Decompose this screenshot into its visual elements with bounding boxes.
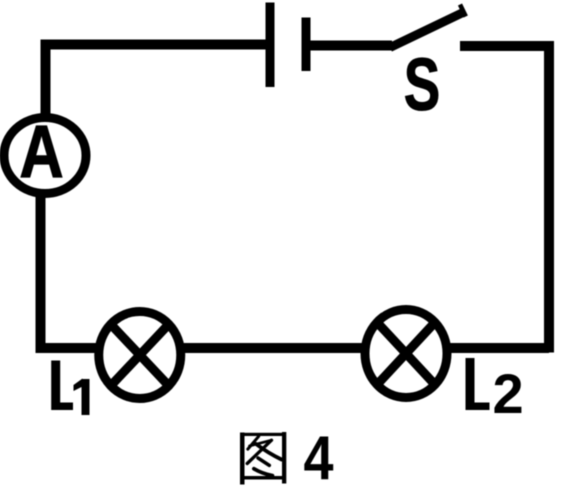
- caption figure char 图 inner stroke heng: [250, 440, 272, 446]
- lamp L2 cross stroke 2: [377, 323, 435, 385]
- wire top-left horizontal: [41, 40, 270, 50]
- lamp L2 cross stroke 1: [377, 323, 435, 385]
- caption figure char 图 box bottom bar: [240, 476, 286, 480]
- svg-text:S: S: [404, 43, 441, 126]
- wire left vertical upper: [41, 40, 51, 120]
- wire right vertical: [544, 46, 554, 353]
- caption figure char 图 inner dot 2: [254, 469, 273, 476]
- label L2 letter L: [466, 358, 490, 410]
- label L1 subscript 1: [74, 379, 90, 416]
- battery BT1 left long plate: [266, 3, 275, 88]
- lamp L1 cross stroke 2: [111, 325, 169, 386]
- lamp L1 cross stroke 1: [111, 325, 169, 386]
- wire battery to switch: [306, 41, 392, 51]
- wire left vertical lower: [36, 192, 46, 348]
- battery BT1 right short plate: [302, 18, 311, 72]
- svg-text:4: 4: [304, 424, 334, 493]
- caption figure char 图 box left vertical: [240, 433, 245, 485]
- wire bottom-right horizontal: [444, 343, 549, 353]
- caption figure char 图 inner dot 1: [258, 458, 269, 465]
- caption figure char 图 inner stroke na: [256, 444, 281, 460]
- switch S blade: [390, 13, 463, 48]
- switch S blade tip tick: [460, 5, 466, 17]
- caption figure char 图 inner stroke pie2: [247, 440, 271, 463]
- caption figure char 图 box right vertical: [282, 432, 286, 484]
- caption figure char 图 inner stroke pie: [248, 436, 259, 449]
- wire bottom-middle horizontal: [178, 343, 368, 353]
- wire top-right horizontal: [460, 41, 554, 51]
- svg-text:2: 2: [493, 362, 524, 425]
- lamp L2 circle: [365, 310, 447, 398]
- svg-text:A: A: [20, 110, 64, 193]
- lamp L1 circle: [99, 312, 181, 399]
- ammeter U1 circle: [4, 118, 86, 194]
- label L1 letter L: [51, 361, 73, 411]
- caption figure char 图 box top bar: [240, 433, 286, 436]
- wire bottom-left horizontal: [36, 343, 103, 353]
